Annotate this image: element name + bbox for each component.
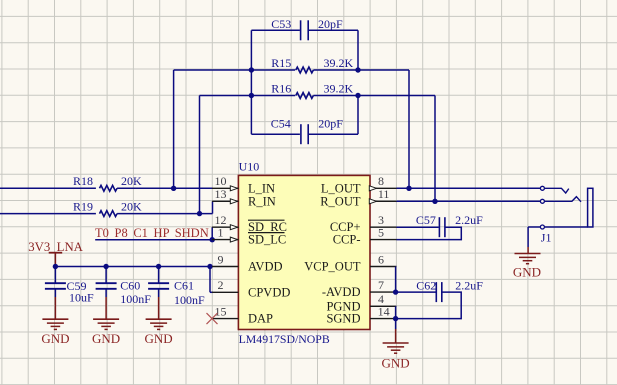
junction R16 right bbox=[355, 93, 360, 98]
wire C54 right bbox=[308, 133, 358, 135]
svg-text:13: 13 bbox=[215, 187, 227, 201]
wire VCP_OUT down to -AVDD bbox=[395, 267, 397, 293]
wire right vertical R16-C54 bbox=[357, 96, 359, 135]
svg-text:C57: C57 bbox=[416, 213, 436, 227]
junction R_OUT bbox=[432, 199, 437, 204]
wire 3V3 rail bbox=[55, 266, 212, 268]
svg-text:5: 5 bbox=[378, 225, 384, 239]
pin 6 VCP_OUT bbox=[370, 266, 397, 268]
svg-text:R16: R16 bbox=[271, 81, 291, 95]
wire C57 return bbox=[397, 227, 462, 239]
pin 4 PGND bbox=[370, 305, 397, 307]
junction R_IN feedback bbox=[197, 211, 202, 216]
wire R16 to node R_OUT column bbox=[358, 95, 435, 97]
wire R19 to jog bbox=[117, 213, 212, 215]
ground C60 bbox=[93, 297, 119, 329]
svg-text:20pF: 20pF bbox=[318, 117, 343, 131]
svg-text:20pF: 20pF bbox=[318, 17, 343, 31]
svg-text:R_OUT: R_OUT bbox=[320, 194, 361, 208]
wire R18 to pin 10 bbox=[117, 187, 212, 189]
junction R16 left bbox=[249, 93, 254, 98]
junction L_IN feedback bbox=[171, 186, 176, 191]
no-connect X on DAP pin 15 bbox=[207, 313, 218, 324]
wire left vertical C53-C54 bbox=[250, 30, 252, 134]
svg-text:GND: GND bbox=[513, 265, 541, 280]
wire L_OUT to jack bbox=[397, 187, 541, 189]
capacitor C61 bbox=[148, 267, 169, 298]
svg-text:GND: GND bbox=[145, 331, 173, 346]
svg-text:10: 10 bbox=[215, 174, 227, 188]
wire right vertical C53-R15 bbox=[357, 30, 359, 70]
resistor R15 bbox=[296, 67, 314, 73]
wire C53 left bbox=[251, 29, 300, 31]
svg-text:T0 P8 C1 HP SHDN: T0 P8 C1 HP SHDN bbox=[95, 226, 209, 240]
svg-text:11: 11 bbox=[378, 187, 390, 201]
wire CCP+ to C57 bbox=[397, 226, 439, 228]
svg-text:LM4917SD/NOPB: LM4917SD/NOPB bbox=[239, 332, 330, 346]
wire L_OUT vertical drop bbox=[408, 70, 410, 188]
wire C54 left bbox=[251, 133, 300, 135]
svg-text:C60: C60 bbox=[120, 279, 140, 293]
svg-text:SGND: SGND bbox=[326, 312, 360, 326]
svg-text:39.2K: 39.2K bbox=[324, 56, 354, 70]
ground C61 bbox=[146, 297, 172, 329]
wire R_OUT to jack bbox=[397, 200, 541, 202]
svg-text:7: 7 bbox=[378, 278, 384, 292]
capacitor C62 bbox=[436, 282, 442, 302]
resistor R16 bbox=[296, 93, 314, 99]
junction R15 right bbox=[355, 67, 360, 72]
svg-text:8: 8 bbox=[378, 174, 384, 188]
pin 1 SD_LC bbox=[212, 237, 238, 242]
capacitor C60 bbox=[96, 267, 117, 298]
pin 10 L_IN bbox=[212, 186, 238, 191]
wire R15 left lead bbox=[174, 69, 296, 71]
svg-text:U10: U10 bbox=[239, 159, 260, 173]
svg-text:CPVDD: CPVDD bbox=[248, 285, 290, 299]
wire R15 to node L_OUT column bbox=[358, 69, 409, 71]
svg-text:R15: R15 bbox=[271, 56, 291, 70]
svg-text:2.2uF: 2.2uF bbox=[455, 278, 483, 292]
capacitor C53 bbox=[301, 20, 309, 40]
svg-text:L_IN: L_IN bbox=[248, 181, 275, 195]
capacitor C54 bbox=[301, 124, 308, 144]
svg-text:GND: GND bbox=[382, 355, 410, 370]
resistor R19 bbox=[100, 211, 118, 217]
svg-text:14: 14 bbox=[378, 304, 390, 318]
svg-text:20K: 20K bbox=[121, 174, 142, 188]
wire C62 return bbox=[396, 292, 462, 319]
svg-text:VCP_OUT: VCP_OUT bbox=[304, 260, 361, 274]
svg-text:20K: 20K bbox=[121, 199, 142, 213]
svg-text:R18: R18 bbox=[73, 174, 93, 188]
pin 8 L_OUT bbox=[369, 186, 396, 191]
svg-text:J1: J1 bbox=[541, 230, 552, 244]
overline SD_LC bbox=[248, 232, 285, 234]
ground J1 bbox=[515, 247, 541, 264]
power port 3V3_LNA bbox=[28, 240, 83, 266]
pin 11 R_OUT bbox=[369, 199, 396, 204]
svg-text:9: 9 bbox=[218, 252, 224, 266]
pin 14 SGND bbox=[370, 318, 397, 320]
svg-text:6: 6 bbox=[378, 252, 384, 266]
wire PGND down to SGND bbox=[395, 306, 397, 318]
wire SHDN net bbox=[95, 239, 212, 241]
pin 2 CPVDD bbox=[212, 291, 238, 293]
wire R16 right lead bbox=[313, 95, 358, 97]
svg-text:DAP: DAP bbox=[248, 312, 273, 326]
svg-text:2.2uF: 2.2uF bbox=[455, 213, 483, 227]
svg-text:39.2K: 39.2K bbox=[324, 81, 354, 95]
wire feedback L vertical bbox=[173, 70, 175, 188]
wire J1 sleeve to ground bbox=[527, 227, 529, 247]
wire R15 right lead bbox=[313, 69, 358, 71]
wire C53 right bbox=[308, 29, 358, 31]
pin 5 CCP- bbox=[370, 239, 397, 241]
junction rail C61 bbox=[156, 264, 161, 269]
junction R15 left bbox=[249, 67, 254, 72]
svg-text:2: 2 bbox=[218, 278, 224, 292]
pin 15 DAP bbox=[212, 318, 238, 320]
svg-text:L_OUT: L_OUT bbox=[321, 181, 361, 195]
svg-text:AVDD: AVDD bbox=[248, 260, 283, 274]
junction L_OUT bbox=[406, 186, 411, 191]
op-amp U10 LM4917 body bbox=[238, 175, 370, 329]
svg-text:GND: GND bbox=[92, 331, 120, 346]
pin 12 SD_RC bbox=[212, 225, 238, 230]
svg-text:CCP-: CCP- bbox=[333, 233, 361, 247]
svg-text:SD_LC: SD_LC bbox=[248, 233, 286, 247]
svg-text:10uF: 10uF bbox=[69, 290, 94, 304]
ground U10 bbox=[383, 319, 409, 354]
pin 7 -AVDD bbox=[370, 291, 397, 293]
pin 13 R_IN bbox=[212, 199, 238, 204]
svg-text:C54: C54 bbox=[271, 117, 291, 131]
overline SD_RC bbox=[248, 219, 285, 221]
junction rail C59 bbox=[53, 264, 58, 269]
wire R_IN net bbox=[0, 213, 96, 215]
junction SHDN bbox=[210, 237, 215, 242]
svg-text:1: 1 bbox=[218, 225, 224, 239]
svg-text:GND: GND bbox=[41, 331, 69, 346]
wire SHDN up to pin 12 bbox=[211, 227, 213, 240]
resistor R18 bbox=[100, 185, 118, 191]
junction -AVDD bbox=[393, 289, 398, 294]
svg-text:C61: C61 bbox=[174, 278, 194, 292]
wire -AVDD to C62 bbox=[397, 291, 436, 293]
ground C59 bbox=[42, 297, 68, 329]
wire rail down to pin 2 bbox=[209, 267, 211, 293]
wire R_OUT vertical drop bbox=[434, 96, 436, 202]
connector J1 headphone jack bbox=[528, 186, 593, 229]
svg-text:C62: C62 bbox=[416, 278, 436, 292]
capacitor C57 bbox=[439, 217, 445, 237]
junction rail C60 bbox=[103, 264, 108, 269]
svg-text:C53: C53 bbox=[271, 17, 291, 31]
pin 9 AVDD bbox=[212, 266, 238, 268]
svg-text:R_IN: R_IN bbox=[248, 194, 276, 208]
svg-text:15: 15 bbox=[215, 304, 227, 318]
svg-text:R19: R19 bbox=[73, 199, 93, 213]
svg-text:100nF: 100nF bbox=[174, 293, 205, 307]
wire jog up to pin 13 bbox=[212, 201, 214, 213]
junction SGND bbox=[393, 316, 398, 321]
wire R16 left lead bbox=[200, 95, 296, 97]
capacitor C59 bbox=[45, 267, 66, 298]
wire L_IN net bbox=[0, 187, 96, 189]
wire feedback R vertical bbox=[199, 96, 201, 214]
pin 3 CCP+ bbox=[370, 226, 397, 228]
svg-text:-AVDD: -AVDD bbox=[322, 285, 361, 299]
svg-text:100nF: 100nF bbox=[120, 292, 151, 306]
junction rail AVDD bbox=[207, 264, 212, 269]
